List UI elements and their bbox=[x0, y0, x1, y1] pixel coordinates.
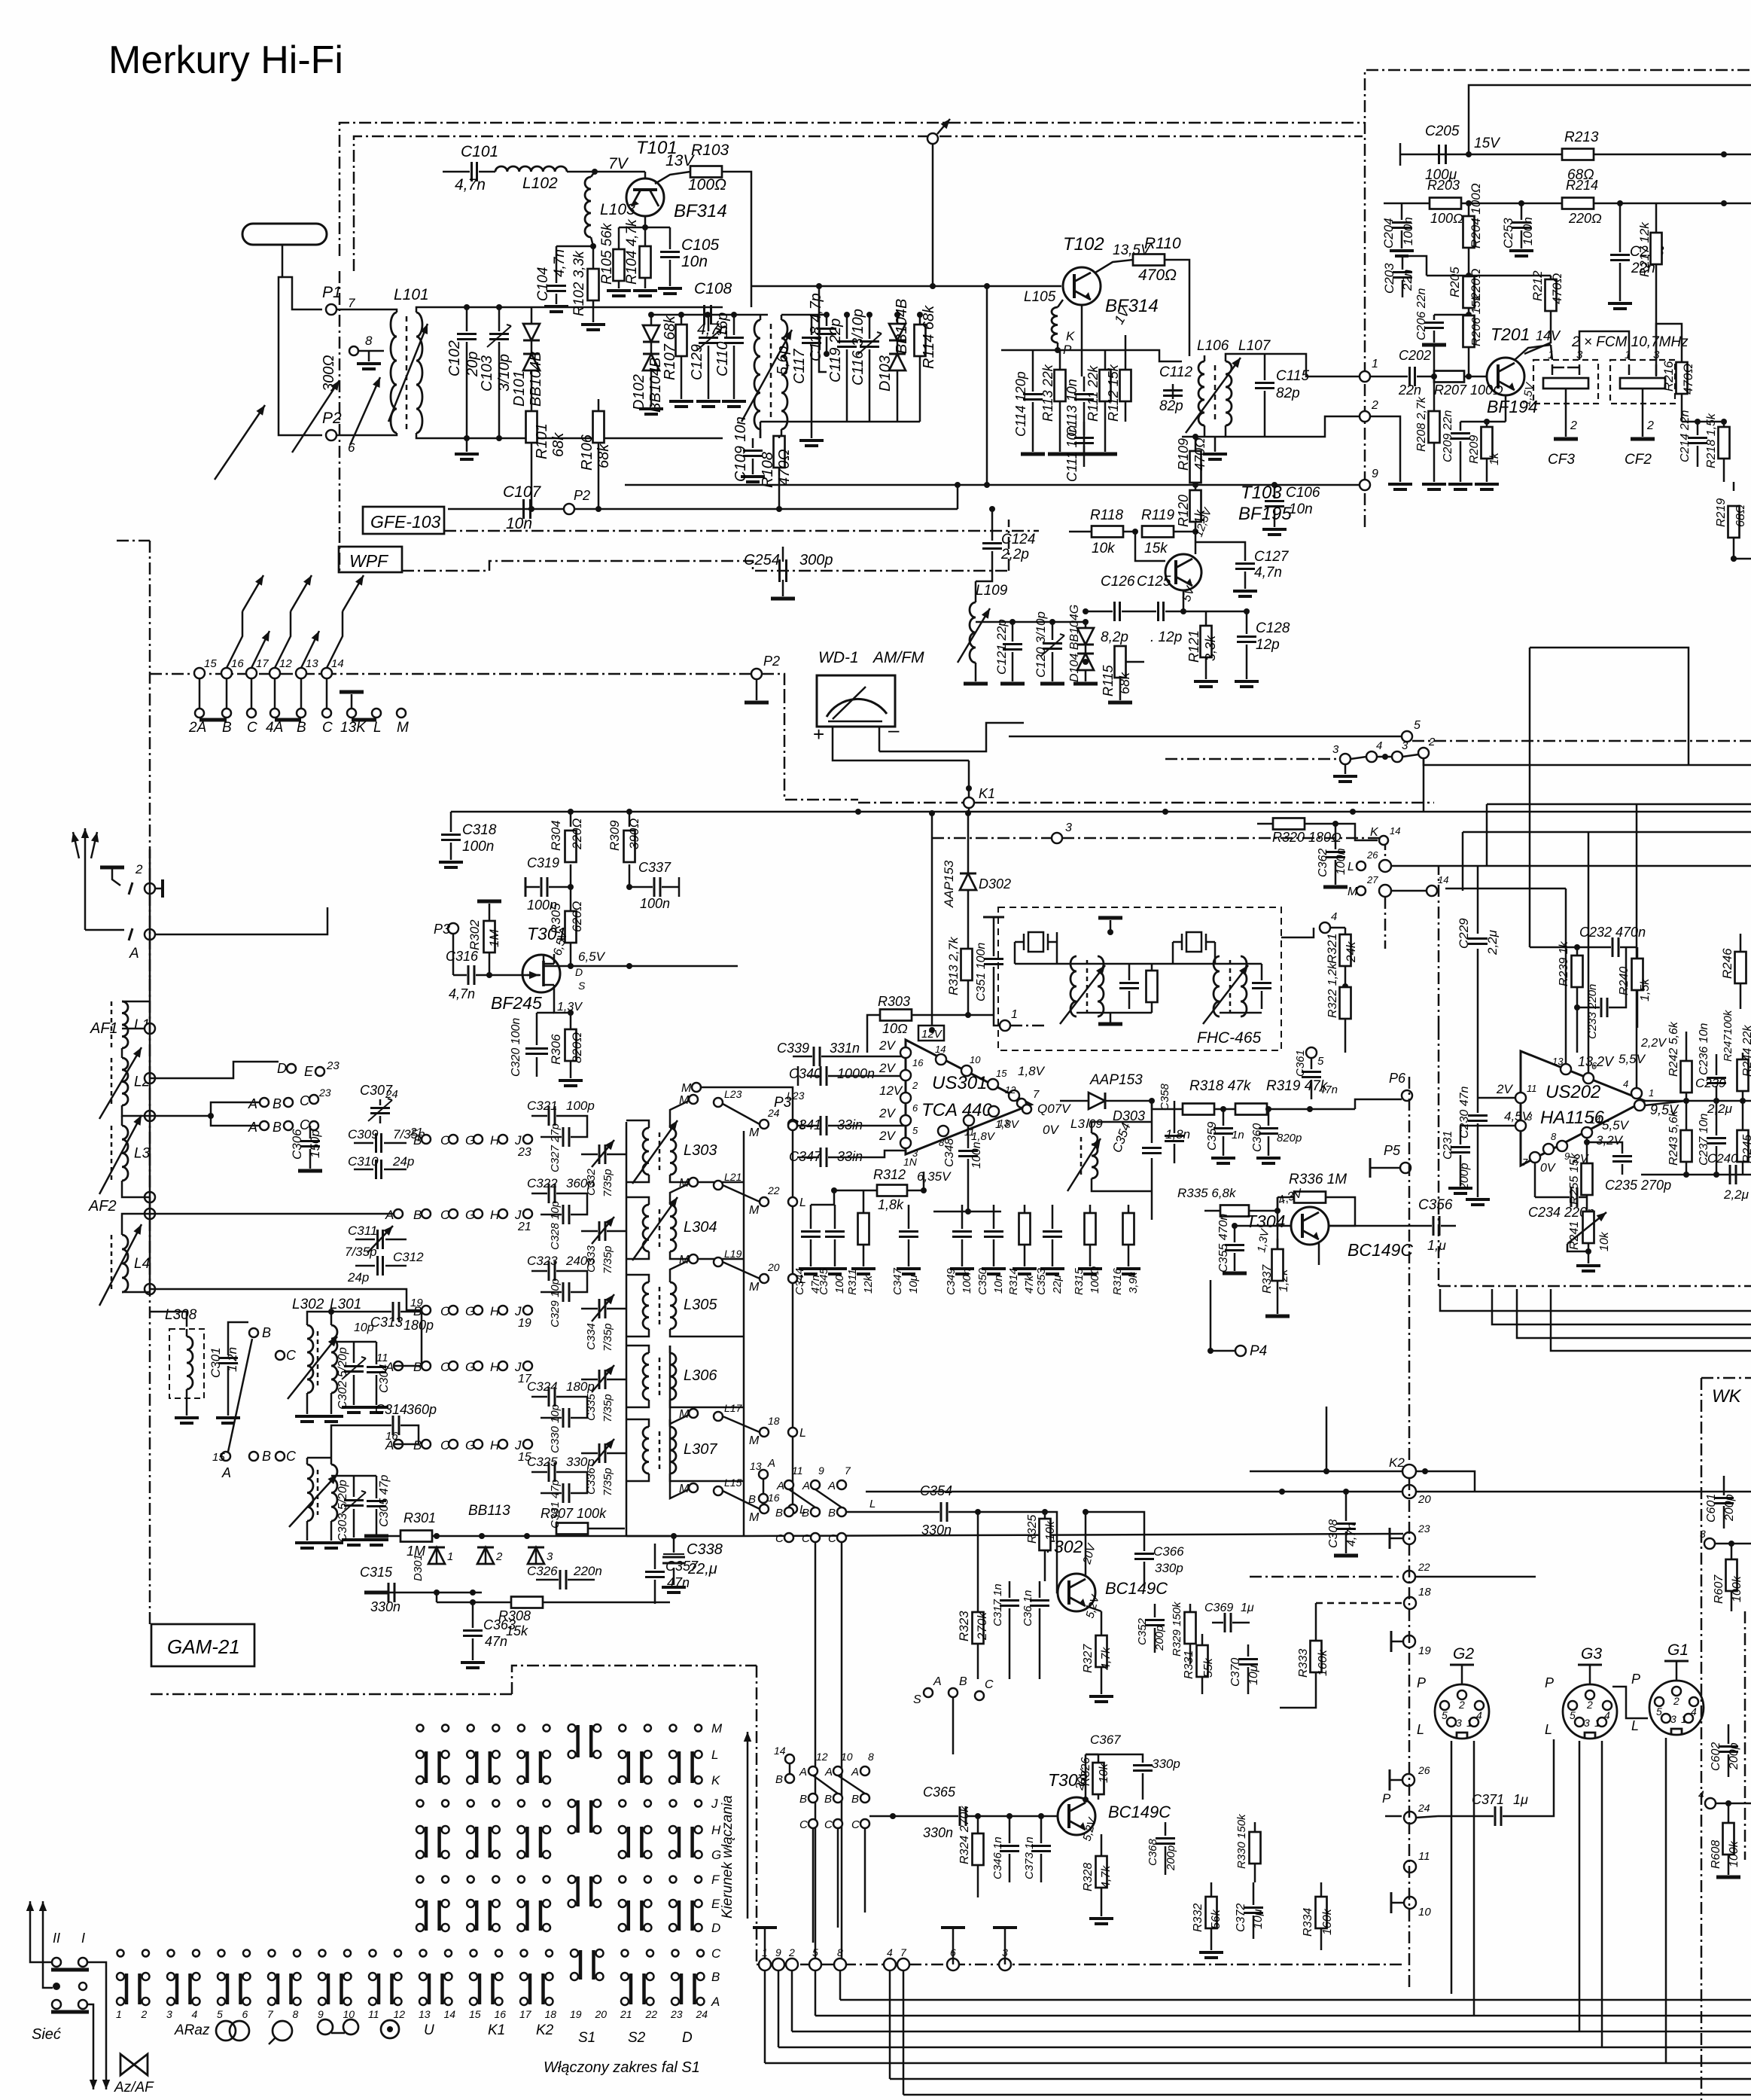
svg-text:100Ω: 100Ω bbox=[1089, 1266, 1101, 1294]
svg-text:BB104B: BB104B bbox=[894, 299, 910, 354]
svg-text:C361: C361 bbox=[1294, 1050, 1307, 1077]
Siec arrows down bbox=[93, 2033, 95, 2089]
resistor R217 12k bbox=[1655, 203, 1658, 232]
svg-text:2,2V: 2,2V bbox=[1640, 1037, 1667, 1050]
vertical line from top rail bbox=[932, 139, 934, 286]
resistor R302 1M bbox=[489, 904, 491, 920]
svg-text:22,μ: 22,μ bbox=[687, 1561, 717, 1577]
svg-text:R246: R246 bbox=[1720, 948, 1734, 979]
trimmer C302 5/20p bbox=[353, 1342, 355, 1363]
wire L104 secondary top bbox=[781, 314, 827, 316]
bus line y2677 bbox=[815, 2015, 1751, 2017]
svg-text:CF2: CF2 bbox=[1625, 452, 1652, 468]
svg-text:12V: 12V bbox=[879, 1084, 903, 1098]
svg-text:8: 8 bbox=[868, 1751, 874, 1763]
IF box border top bbox=[1365, 70, 1751, 527]
svg-text:26: 26 bbox=[1418, 1764, 1430, 1776]
svg-text:R103: R103 bbox=[691, 142, 729, 159]
svg-text:C116 3/10p: C116 3/10p bbox=[850, 309, 866, 386]
svg-text:BC149C: BC149C bbox=[1348, 1240, 1413, 1260]
svg-text:R607: R607 bbox=[1713, 1574, 1725, 1604]
svg-text:C334: C334 bbox=[585, 1323, 598, 1350]
capacitor C235 270p bbox=[1587, 1142, 1622, 1154]
connector pin1 left bbox=[1360, 371, 1370, 382]
svg-text:C: C bbox=[247, 720, 257, 736]
svg-text:P2: P2 bbox=[574, 488, 590, 503]
capacitor C359 1n bbox=[1223, 1109, 1225, 1126]
svg-text:A: A bbox=[221, 1465, 231, 1480]
svg-text:4: 4 bbox=[1331, 910, 1337, 923]
svg-text:14: 14 bbox=[1390, 825, 1400, 837]
svg-text:22n: 22n bbox=[1398, 383, 1421, 398]
svg-text:13: 13 bbox=[750, 1460, 762, 1472]
svg-text:1μ: 1μ bbox=[1241, 1602, 1254, 1614]
svg-text:L: L bbox=[1348, 861, 1354, 873]
svg-text:270k: 270k bbox=[975, 1611, 989, 1641]
svg-text:24: 24 bbox=[767, 1107, 780, 1119]
rotary switch contact 12 bbox=[270, 668, 280, 678]
svg-text:220Ω: 220Ω bbox=[1568, 211, 1602, 226]
svg-text:1: 1 bbox=[1372, 358, 1378, 370]
resistor R321 24k bbox=[1344, 928, 1347, 934]
svg-text:17: 17 bbox=[519, 2008, 532, 2020]
svg-text:L303: L303 bbox=[684, 1142, 717, 1159]
svg-text:22: 22 bbox=[767, 1184, 780, 1196]
svg-text:3: 3 bbox=[1700, 1528, 1706, 1540]
svg-text:5: 5 bbox=[1414, 719, 1421, 732]
svg-text:C368: C368 bbox=[1147, 1838, 1159, 1866]
svg-text:360p: 360p bbox=[566, 1176, 595, 1190]
trimmer C129 bbox=[708, 315, 710, 331]
svg-text:L3Ⅰ09: L3Ⅰ09 bbox=[1070, 1117, 1103, 1131]
svg-text:5: 5 bbox=[812, 1946, 818, 1958]
svg-text:R255 15k: R255 15k bbox=[1568, 1153, 1581, 1205]
svg-text:C: C bbox=[440, 1133, 450, 1148]
svg-text:330n: 330n bbox=[923, 1825, 953, 1840]
svg-text:A: A bbox=[824, 1766, 833, 1778]
capacitor C104 4,7n bbox=[556, 246, 558, 283]
connector P2 bbox=[326, 430, 336, 440]
T303 input selector bbox=[785, 1754, 794, 1763]
svg-text:C102: C102 bbox=[446, 340, 463, 376]
varactor D101 BB104B bbox=[531, 307, 533, 324]
svg-text:C: C bbox=[440, 1208, 450, 1222]
resistor R216 470ohm bbox=[1681, 360, 1683, 361]
svg-text:100n: 100n bbox=[462, 839, 494, 855]
aux antenna sym bbox=[100, 866, 124, 870]
opamp US202 HA1156 bbox=[1521, 1051, 1645, 1166]
svg-text:1,8V: 1,8V bbox=[995, 1118, 1020, 1131]
svg-text:R111 22k: R111 22k bbox=[1086, 365, 1101, 422]
svg-text:5,5V: 5,5V bbox=[1619, 1052, 1646, 1066]
svg-text:R244 22k: R244 22k bbox=[1741, 1025, 1751, 1077]
GFE-103 inner border bbox=[354, 136, 1363, 271]
svg-text:3,2V: 3,2V bbox=[1596, 1133, 1624, 1148]
wire to L106 bbox=[1122, 350, 1182, 361]
connector P2 wpf bbox=[564, 504, 574, 514]
FHC crystal 2 bbox=[1186, 932, 1201, 952]
svg-text:4,7n: 4,7n bbox=[552, 249, 568, 277]
contact M L304 bbox=[689, 1178, 698, 1187]
resistor R101 68k bbox=[531, 399, 533, 410]
resistor R208 2,7k bbox=[1433, 345, 1436, 376]
svg-text:H: H bbox=[490, 1133, 500, 1148]
svg-text:L101: L101 bbox=[394, 286, 429, 303]
US202 pin 14 bbox=[1582, 1127, 1592, 1138]
svg-text:3: 3 bbox=[547, 1550, 553, 1563]
capacitor C349 100n bbox=[961, 1205, 964, 1229]
capacitor C318 100n bbox=[450, 812, 452, 832]
svg-text:R243 5,6k: R243 5,6k bbox=[1667, 1110, 1680, 1166]
bus connector 7 bbox=[897, 1958, 909, 1970]
svg-text:P2: P2 bbox=[763, 654, 780, 669]
svg-text:82p: 82p bbox=[1159, 398, 1183, 414]
connector pin9 left bbox=[1360, 480, 1370, 490]
varicap D301-3 bbox=[528, 1547, 544, 1564]
svg-text:C360: C360 bbox=[1251, 1123, 1264, 1152]
varactor D103 BB104B bbox=[897, 315, 899, 324]
svg-text:8,2p: 8,2p bbox=[1101, 629, 1128, 645]
svg-text:820p: 820p bbox=[1277, 1132, 1302, 1144]
svg-text:2V: 2V bbox=[879, 1106, 896, 1120]
svg-text:P5: P5 bbox=[1384, 1143, 1401, 1158]
junction dots rail bbox=[955, 482, 961, 488]
capacitor C117 5,6p bbox=[811, 315, 813, 335]
capacitor C110 16p bbox=[733, 315, 735, 335]
svg-text:8: 8 bbox=[365, 334, 373, 348]
svg-text:3: 3 bbox=[1456, 1717, 1462, 1729]
svg-text:17: 17 bbox=[256, 657, 269, 670]
svg-text:C309: C309 bbox=[348, 1127, 379, 1141]
svg-text:2V: 2V bbox=[879, 1129, 896, 1143]
svg-text:16: 16 bbox=[912, 1057, 924, 1068]
svg-text:C352: C352 bbox=[1136, 1617, 1149, 1645]
resistor R102 3,3k bbox=[592, 246, 595, 268]
resistor R325 10k bbox=[1044, 1512, 1046, 1518]
svg-text:WPF: WPF bbox=[349, 551, 389, 571]
svg-text:C: C bbox=[322, 720, 333, 736]
WPF bottom border 2 bbox=[678, 561, 1009, 571]
svg-text:H: H bbox=[490, 1304, 500, 1318]
svg-text:2V: 2V bbox=[1496, 1082, 1513, 1096]
svg-text:18: 18 bbox=[545, 2008, 557, 2020]
svg-text:R322 1,2k: R322 1,2k bbox=[1326, 962, 1339, 1018]
svg-text:22n: 22n bbox=[1400, 270, 1415, 291]
svg-text:C362: C362 bbox=[1317, 849, 1329, 877]
wire CF top links bbox=[1551, 345, 1552, 360]
svg-text:C328 10p: C328 10p bbox=[549, 1201, 562, 1250]
capacitor C344 47n bbox=[810, 1205, 812, 1229]
svg-text:R119: R119 bbox=[1141, 507, 1174, 523]
rotary switch contact 16 bbox=[221, 668, 232, 678]
svg-text:C240: C240 bbox=[1707, 1151, 1738, 1166]
svg-text:2: 2 bbox=[1646, 419, 1654, 432]
svg-text:C324: C324 bbox=[527, 1379, 558, 1394]
connector P1 bbox=[326, 304, 336, 315]
svg-text:C209 22n: C209 22n bbox=[1442, 410, 1454, 462]
svg-text:L306: L306 bbox=[684, 1367, 717, 1384]
svg-text:11: 11 bbox=[1418, 1850, 1430, 1863]
svg-text:7/35p: 7/35p bbox=[601, 1394, 614, 1422]
main rail y644 bbox=[625, 484, 1365, 486]
svg-text:4: 4 bbox=[192, 2008, 198, 2020]
connector pin2 left bbox=[1360, 411, 1370, 422]
svg-text:R213: R213 bbox=[1564, 130, 1599, 145]
US202 pin 11 bbox=[1515, 1093, 1526, 1103]
svg-text:R314: R314 bbox=[1007, 1268, 1020, 1295]
capacitor C351 100n bbox=[983, 916, 1004, 919]
svg-text:A: A bbox=[129, 946, 139, 962]
svg-text:R108: R108 bbox=[760, 452, 776, 488]
switch short arrow 1 bbox=[251, 631, 270, 668]
varicap D301-1 bbox=[428, 1547, 445, 1564]
svg-text:R242 5,6k: R242 5,6k bbox=[1667, 1021, 1680, 1077]
bus connector 9 bbox=[772, 1958, 784, 1970]
svg-text:19: 19 bbox=[518, 1317, 531, 1330]
long line y1105 bbox=[1463, 831, 1751, 834]
svg-text:C103: C103 bbox=[479, 355, 495, 392]
svg-text:21: 21 bbox=[517, 1221, 531, 1233]
svg-text:L: L bbox=[711, 1748, 718, 1762]
svg-text:M: M bbox=[749, 1204, 760, 1217]
svg-text:C204: C204 bbox=[1381, 218, 1396, 248]
contact M L303 bbox=[689, 1095, 698, 1104]
svg-text:R118: R118 bbox=[1090, 507, 1123, 523]
bus riser x1052 bbox=[791, 1970, 793, 2031]
svg-text:C344: C344 bbox=[793, 1268, 806, 1295]
svg-text:7/35p: 7/35p bbox=[601, 1323, 614, 1352]
svg-text:2: 2 bbox=[912, 1080, 918, 1091]
resistor R104 4,7k bbox=[644, 227, 647, 246]
svg-text:R120: R120 bbox=[1176, 495, 1191, 527]
svg-text:R315: R315 bbox=[1073, 1267, 1086, 1295]
svg-text:16: 16 bbox=[495, 2008, 507, 2020]
svg-text:47k: 47k bbox=[1023, 1274, 1036, 1294]
svg-text:D104 BB104G: D104 BB104G bbox=[1068, 605, 1081, 682]
socket A bbox=[85, 929, 124, 931]
svg-text:L307: L307 bbox=[684, 1441, 717, 1458]
T302 input selector bbox=[759, 1470, 768, 1479]
capacitor C206 22n bbox=[1434, 314, 1469, 316]
coil bank taps bbox=[145, 1023, 155, 1034]
svg-text:1,8n: 1,8n bbox=[1165, 1127, 1190, 1141]
svg-text:R113 22k: R113 22k bbox=[1040, 364, 1055, 422]
svg-text:B: B bbox=[413, 1438, 422, 1452]
svg-text:P: P bbox=[1382, 1791, 1391, 1806]
svg-text:23: 23 bbox=[1418, 1522, 1430, 1535]
capacitor C348 100n bbox=[967, 1126, 970, 1148]
svg-text:5,6p: 5,6p bbox=[775, 346, 791, 375]
wire A to AM coils bbox=[155, 907, 327, 934]
svg-text:3/10p: 3/10p bbox=[496, 354, 513, 392]
bus riser x1116 bbox=[839, 1970, 842, 2000]
svg-text:R239 1k: R239 1k bbox=[1558, 940, 1570, 986]
svg-text:R313 2,7k: R313 2,7k bbox=[946, 936, 961, 995]
US202 pin 9 bbox=[1557, 1141, 1567, 1151]
svg-text:0V: 0V bbox=[1043, 1123, 1059, 1137]
svg-text:3,3k: 3,3k bbox=[1203, 635, 1218, 661]
inductor L103 bbox=[592, 169, 598, 175]
wire osc to row bbox=[307, 1312, 331, 1319]
coil bank wires bbox=[149, 1001, 151, 1289]
capacitor C308 4,7n bbox=[1345, 1492, 1348, 1521]
R301 wire bbox=[376, 1535, 670, 1538]
svg-text:C356: C356 bbox=[1418, 1197, 1453, 1213]
bus connector 2 bbox=[786, 1958, 798, 1970]
FHC res 1 bbox=[1147, 971, 1158, 1002]
svg-text:55k: 55k bbox=[1202, 1657, 1215, 1678]
resistor R206 15k bbox=[1463, 315, 1475, 347]
svg-text:4,7k: 4,7k bbox=[1100, 1865, 1113, 1888]
capacitor C118 4,7p bbox=[817, 328, 836, 330]
svg-text:R312: R312 bbox=[873, 1167, 906, 1182]
svg-text:K: K bbox=[1066, 329, 1075, 343]
svg-text:10k: 10k bbox=[1044, 1520, 1057, 1541]
capacitor C203 22n bbox=[1402, 256, 1404, 270]
capacitor C213 22n bbox=[1619, 203, 1622, 252]
svg-text:1,μ: 1,μ bbox=[1427, 1238, 1446, 1253]
contact L26 bbox=[1357, 861, 1366, 870]
svg-text:C365: C365 bbox=[923, 1785, 956, 1800]
trimmer C120 3/10p bbox=[1052, 622, 1054, 640]
svg-text:C202: C202 bbox=[1399, 348, 1431, 363]
svg-text:L102: L102 bbox=[522, 175, 558, 192]
svg-text:10Ω: 10Ω bbox=[882, 1021, 908, 1036]
svg-text:10n: 10n bbox=[681, 253, 708, 270]
svg-text:C107: C107 bbox=[503, 483, 542, 501]
svg-text:–: – bbox=[888, 718, 900, 741]
US301 pin 16 bbox=[900, 1047, 911, 1058]
svg-text:C336: C336 bbox=[585, 1467, 598, 1495]
dash-dot bus to P2 bbox=[150, 673, 751, 675]
svg-text:H: H bbox=[490, 1438, 500, 1452]
svg-text:K: K bbox=[1370, 826, 1379, 839]
long line y860 bbox=[1530, 648, 1689, 765]
svg-text:330p: 330p bbox=[1152, 1757, 1180, 1771]
svg-text:BF245: BF245 bbox=[491, 993, 542, 1013]
FHC crystal 1 bbox=[1028, 932, 1043, 952]
resistor R109 470ohm bbox=[1195, 437, 1197, 452]
svg-text:7: 7 bbox=[900, 1946, 907, 1958]
svg-text:20: 20 bbox=[595, 2008, 608, 2020]
svg-text:L15: L15 bbox=[724, 1477, 742, 1489]
svg-text:160k: 160k bbox=[1321, 1908, 1334, 1935]
coil L3 bbox=[111, 1126, 113, 1181]
svg-text:C358: C358 bbox=[1159, 1083, 1171, 1111]
svg-text:20: 20 bbox=[1418, 1493, 1431, 1506]
svg-text:R328: R328 bbox=[1082, 1863, 1095, 1891]
svg-text:26: 26 bbox=[1366, 849, 1378, 861]
svg-text:11: 11 bbox=[1527, 1083, 1537, 1094]
transformer L304 bbox=[643, 1205, 649, 1251]
svg-text:220n: 220n bbox=[573, 1564, 602, 1578]
GAM left border bbox=[149, 979, 151, 1626]
svg-text:12p: 12p bbox=[1256, 637, 1280, 653]
wire L101 bottom rail bbox=[433, 437, 723, 440]
resistor R209 1k bbox=[1484, 419, 1490, 425]
svg-text:BF195: BF195 bbox=[1238, 504, 1292, 524]
US301 bottom pins bbox=[988, 1106, 999, 1117]
resistor R320 180ohm bbox=[1257, 823, 1272, 825]
connector P6 bbox=[1402, 1090, 1412, 1101]
svg-text:200p: 200p bbox=[1153, 1626, 1166, 1651]
svg-text:2: 2 bbox=[1428, 736, 1436, 748]
svg-text:1N: 1N bbox=[903, 1156, 918, 1168]
GAM-21 bottom border bbox=[151, 1693, 512, 1696]
svg-text:12: 12 bbox=[1005, 1084, 1016, 1096]
ceramic filter CF2 bbox=[1610, 360, 1675, 404]
bus connector 3 bbox=[999, 1958, 1011, 1970]
svg-text:C111 10n: C111 10n bbox=[1064, 425, 1080, 482]
K1 node bbox=[968, 760, 970, 797]
svg-text:15: 15 bbox=[204, 657, 217, 670]
svg-text:C315: C315 bbox=[360, 1565, 393, 1580]
svg-text:R309: R309 bbox=[608, 820, 622, 851]
matrix circles row F bbox=[417, 1876, 424, 1883]
FHC coil pair 2 bbox=[1214, 956, 1220, 1016]
bank rail to conn20 bbox=[744, 1534, 1403, 1536]
svg-text:R105 56k: R105 56k bbox=[599, 222, 615, 285]
wire D102 gnd bbox=[650, 399, 653, 407]
svg-text:B: B bbox=[222, 720, 232, 736]
svg-text:24: 24 bbox=[385, 1088, 398, 1101]
capacitor C317 1n bbox=[1009, 1581, 1011, 1598]
svg-text:24k: 24k bbox=[1344, 940, 1358, 963]
capacitor C327 27p bbox=[562, 1127, 565, 1147]
svg-text:CF3: CF3 bbox=[1548, 452, 1575, 468]
resistor R239 1k bbox=[1576, 947, 1579, 955]
svg-text:R331: R331 bbox=[1183, 1650, 1195, 1679]
svg-text:18: 18 bbox=[1418, 1586, 1431, 1599]
svg-text:M: M bbox=[711, 1721, 723, 1736]
svg-text:C350: C350 bbox=[976, 1267, 989, 1295]
svg-text:1k: 1k bbox=[1488, 452, 1501, 465]
US301 pin 5 bbox=[900, 1115, 911, 1126]
svg-text:B: B bbox=[262, 1449, 271, 1464]
capacitor C312 24p bbox=[376, 1256, 379, 1276]
svg-text:20: 20 bbox=[767, 1261, 780, 1273]
svg-text:R101: R101 bbox=[534, 423, 550, 459]
svg-text:2V: 2V bbox=[879, 1038, 896, 1053]
trimmer C332 7/35p bbox=[598, 1144, 601, 1164]
svg-text:R115: R115 bbox=[1101, 664, 1116, 696]
svg-text:C373 1n: C373 1n bbox=[1023, 1836, 1036, 1879]
K2 left stub bbox=[1323, 1468, 1329, 1474]
svg-text:13: 13 bbox=[419, 2008, 431, 2020]
matrix circles row M bbox=[417, 1725, 424, 1732]
resistor R316 3,9k bbox=[1128, 1205, 1130, 1212]
svg-text:R304: R304 bbox=[549, 820, 563, 851]
svg-text:L109: L109 bbox=[976, 583, 1008, 599]
capacitor C229 2,2u bbox=[1477, 866, 1479, 934]
svg-text:220Ω: 220Ω bbox=[570, 818, 584, 850]
svg-text:P: P bbox=[1417, 1675, 1426, 1690]
svg-text:100n: 100n bbox=[961, 1269, 973, 1294]
svg-text:C104: C104 bbox=[535, 267, 551, 301]
svg-text:2,2μ: 2,2μ bbox=[1707, 1102, 1733, 1116]
svg-text:M: M bbox=[749, 1511, 760, 1524]
svg-text:C330 10p: C330 10p bbox=[549, 1404, 562, 1453]
resistor R331 55k bbox=[1201, 1634, 1204, 1644]
svg-text:9: 9 bbox=[318, 2008, 324, 2020]
svg-text:3: 3 bbox=[1332, 743, 1339, 756]
svg-text:GAM-21: GAM-21 bbox=[167, 1635, 240, 1658]
svg-text:0V: 0V bbox=[1540, 1162, 1556, 1175]
US202 pin 3 bbox=[1515, 1120, 1526, 1131]
svg-text:240p: 240p bbox=[565, 1254, 595, 1268]
staircase line 3 bbox=[1517, 1289, 1751, 1338]
resistor R245 bbox=[1742, 1101, 1744, 1129]
